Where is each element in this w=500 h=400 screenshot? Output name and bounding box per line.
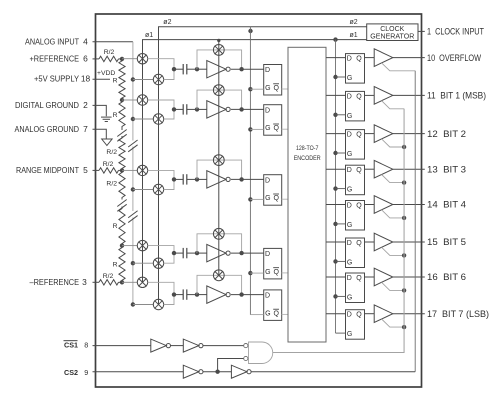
output row 1 pin wire — [393, 57, 425, 59]
three-state output buffer B7 — [374, 268, 393, 286]
ladder resistor R (below row2 tap) — [119, 100, 125, 129]
svg-text:+VDD: +VDD — [97, 70, 115, 77]
output latch U18 — [346, 310, 365, 340]
svg-text:G: G — [347, 259, 352, 266]
svg-text:Q: Q — [356, 132, 362, 139]
svg-text:D: D — [347, 312, 352, 319]
svg-text:ANALOG INPUT: ANALOG INPUT — [25, 37, 79, 47]
node: enable bus join row 6 — [402, 253, 406, 257]
svg-text:G: G — [347, 294, 352, 301]
ladder break mark upper — [121, 129, 123, 131]
node: row 1 latch G clock tap — [248, 87, 252, 91]
svg-text:RANGE MIDPOINT: RANGE MIDPOINT — [16, 165, 79, 175]
node: CS2 branch — [203, 371, 231, 373]
svg-text:9: 9 — [84, 368, 88, 377]
main device boundary box — [96, 14, 422, 387]
row 2 reference sampling switch S2A — [137, 95, 147, 105]
row 3 feedback switch S3F — [213, 155, 224, 166]
ladder break mark lower — [117, 200, 126, 207]
svg-text:Q: Q — [273, 310, 279, 317]
output latch U15 — [346, 201, 365, 231]
svg-text:G: G — [265, 85, 270, 92]
row 4 latch D wire — [231, 252, 264, 254]
row 4 reference tap wire — [122, 245, 137, 247]
resistor R/2 (pin 3) — [93, 281, 100, 283]
enable AND gate U30 (inverting inputs) — [249, 342, 273, 364]
svg-text:10 OVERFLOW: 10 OVERFLOW — [427, 53, 481, 63]
three-state output buffer B4 — [374, 160, 393, 178]
output row 8 pin wire — [393, 313, 425, 315]
node: row 4 inverter output — [239, 251, 243, 255]
svg-text:D: D — [265, 251, 270, 258]
svg-text:ø1: ø1 — [145, 32, 153, 39]
row 2 analog tap wire — [133, 118, 153, 120]
output latch U11 — [346, 54, 365, 84]
row 3 latch Qbar to encoder wire — [282, 198, 288, 200]
row 2 auto-balance feedback wire — [197, 90, 242, 109]
svg-text:5: 5 — [83, 165, 88, 175]
node: row 4 latch G clock tap — [248, 271, 252, 275]
svg-text:+REFERENCE: +REFERENCE — [30, 54, 80, 64]
gate output wire to bits enable bus — [273, 109, 404, 353]
svg-text:2: 2 — [83, 100, 88, 110]
pin 8 CS1 wire — [93, 345, 151, 347]
CS2 inverter A14 — [231, 365, 251, 378]
node: row 3 inverter input — [195, 177, 199, 181]
output latch U13 — [346, 130, 365, 160]
svg-text:15 BIT 5: 15 BIT 5 — [427, 237, 466, 247]
row 1 analog sampling switch S1B — [153, 74, 163, 84]
svg-text:R/2: R/2 — [103, 161, 114, 168]
phi2 clock wire — [159, 27, 367, 305]
svg-text:Q: Q — [273, 125, 279, 132]
node: output row 7 G clock tap — [333, 294, 337, 298]
CS2 branch to gate wire — [218, 359, 244, 372]
capacitor C3 — [174, 178, 183, 180]
capacitor C1 — [174, 68, 183, 70]
row 4 latch Qbar to encoder wire — [282, 272, 288, 274]
node: row 3 inverter output — [239, 177, 243, 181]
CS1 inverter A12 — [183, 339, 203, 352]
svg-text:D: D — [265, 107, 270, 114]
svg-text:GENERATOR: GENERATOR — [370, 34, 414, 41]
svg-text:G: G — [347, 331, 352, 338]
output row 8 latch Q wire — [365, 313, 375, 315]
output row 5 encoder-to-latch D wire — [326, 204, 346, 206]
three-state output buffer B8 — [374, 305, 393, 323]
row 3 comparator inverter A3 — [197, 178, 207, 180]
three-state output buffer B6 — [374, 233, 393, 251]
pin 18 +VDD wire — [93, 78, 111, 80]
output row 2 pin wire — [393, 94, 425, 96]
row 1 reference tap wire — [122, 58, 137, 60]
svg-text:13 BIT 3: 13 BIT 3 — [427, 164, 466, 174]
output latch U14 — [346, 165, 365, 195]
row 3 latch D wire — [231, 178, 264, 180]
phi1 clock wire — [143, 40, 367, 283]
node: analog bus tap row 5 — [131, 302, 135, 306]
svg-text:8: 8 — [84, 340, 88, 349]
output row 6 latch Q wire — [365, 241, 375, 243]
output row 4 latch Q wire — [365, 168, 375, 170]
capacitor C2 — [174, 108, 183, 110]
three-state output buffer B3 — [374, 125, 393, 143]
row 5 sample latch U5 — [264, 290, 282, 321]
svg-text:D: D — [347, 93, 352, 100]
node: row 1 inverter input — [195, 67, 199, 71]
node: enable bus join row 7 — [402, 288, 406, 292]
row 2 sample latch U2 — [264, 105, 282, 136]
row 5 auto-balance feedback wire — [197, 275, 242, 294]
bits enable bus wire — [403, 109, 405, 353]
row 1 comparator inverter A1 — [197, 68, 207, 70]
svg-text:4: 4 — [83, 37, 88, 47]
output row 8 encoder-to-latch D wire — [326, 313, 346, 315]
svg-text:Q: Q — [356, 93, 362, 100]
gate input bubble 1 — [244, 344, 248, 348]
svg-text:Q: Q — [356, 56, 362, 63]
svg-text:Q: Q — [356, 167, 362, 174]
row 3 reference tap wire — [122, 169, 137, 171]
output row 2 latch Q wire — [365, 94, 375, 96]
output row 3 latch Q wire — [365, 133, 375, 135]
output row 6 pin wire — [393, 241, 425, 243]
svg-text:–REFERENCE: –REFERENCE — [30, 277, 80, 287]
node: row 5 inverter output — [239, 292, 243, 296]
node: output row 3 G clock tap — [333, 151, 337, 155]
svg-text:CS1: CS1 — [64, 342, 78, 349]
node: row 4 cap input — [172, 251, 176, 255]
output row 2 G stub wire — [336, 114, 346, 116]
row 5 analog sampling switch S5B — [153, 299, 163, 309]
svg-text:R/2: R/2 — [106, 149, 117, 156]
node: enable bus join row 4 — [402, 180, 406, 184]
svg-text:128-TO-7: 128-TO-7 — [296, 145, 319, 152]
pin 9 CS2 wire — [93, 371, 184, 373]
svg-text:ø1: ø1 — [350, 32, 358, 39]
svg-text:+5V SUPPLY: +5V SUPPLY — [34, 74, 79, 84]
svg-text:D: D — [347, 275, 352, 282]
128-to-7 encoder U20 — [288, 47, 326, 342]
row 3 switch join wires — [148, 170, 174, 179]
row 3 analog tap wire — [133, 189, 153, 191]
svg-text:G: G — [265, 310, 270, 317]
second-rank latch G clock bus wire — [335, 40, 337, 334]
svg-text:G: G — [347, 222, 352, 229]
first-rank latch G clock bus wire — [249, 27, 251, 315]
row 4 reference sampling switch S4A — [137, 240, 147, 250]
node: row 2 inverter input — [195, 107, 199, 111]
node: row 5 cap input — [172, 292, 176, 296]
output row 6 enable wire — [382, 247, 405, 255]
node: analog bus tap row 4 — [131, 261, 135, 265]
row 2 feedback switch S2F — [213, 85, 224, 96]
svg-text:G: G — [347, 151, 352, 158]
ladder resistor R/2 (above midpoint) — [119, 136, 125, 170]
output row 8 G stub wire — [336, 332, 346, 334]
row 3 sample latch U3 — [264, 175, 282, 206]
ladder resistor R (above row4 tap) — [119, 207, 125, 246]
svg-text:CS2: CS2 — [64, 370, 78, 377]
svg-text:G: G — [347, 113, 352, 120]
row 4 feedback switch S4F — [213, 228, 224, 239]
row 5 switch join wires — [148, 282, 174, 294]
CS2 inverter A13 — [183, 365, 203, 378]
ladder resistor R/2 (below midpoint) — [119, 170, 125, 199]
CS1 stage wire — [171, 345, 184, 347]
svg-text:R/2: R/2 — [103, 273, 114, 280]
svg-text:G: G — [265, 125, 270, 132]
svg-text:D: D — [347, 132, 352, 139]
row 4 sample latch U4 — [264, 248, 282, 279]
node: output row 6 G clock tap — [333, 259, 337, 263]
svg-text:G: G — [347, 75, 352, 82]
node: output row 5 G clock tap — [333, 222, 337, 226]
node: enable bus join row 8 — [402, 325, 406, 329]
three-state output buffer B2 — [374, 87, 393, 105]
analog ground symbol (open triangle) — [102, 139, 112, 146]
node: range midpoint tap — [120, 168, 124, 172]
overflow enable bus wire — [414, 71, 416, 372]
svg-text:ENCODER: ENCODER — [294, 155, 321, 162]
output row 6 G stub wire — [336, 260, 346, 262]
svg-text:1 CLOCK INPUT: 1 CLOCK INPUT — [427, 26, 484, 36]
node: row 3 cap input — [172, 177, 176, 181]
output row 7 latch Q wire — [365, 276, 375, 278]
output row 8 enable wire — [382, 319, 405, 327]
row 1 sample latch U1 — [264, 65, 282, 96]
node: row 2 cap input — [172, 107, 176, 111]
row 4 latch G stub wire — [250, 272, 263, 274]
node: row 3 latch G clock tap — [248, 197, 252, 201]
svg-text:Q: Q — [273, 269, 279, 276]
row 3 analog sampling switch S3B — [153, 184, 163, 194]
row 3 auto-balance feedback wire — [197, 160, 242, 179]
row 5 latch D wire — [231, 294, 264, 296]
output latch U12 — [346, 91, 365, 121]
ladder resistor R (row4 tap to -ref) — [119, 246, 125, 283]
svg-text:G: G — [265, 269, 270, 276]
svg-text:G: G — [347, 187, 352, 194]
output row 1 enable wire — [382, 63, 416, 71]
output row 7 pin wire — [393, 276, 425, 278]
svg-text:R/2: R/2 — [106, 181, 117, 188]
output row 5 latch Q wire — [365, 204, 375, 206]
output row 5 enable wire — [382, 210, 405, 218]
row 1 auto-balance feedback wire — [197, 50, 242, 69]
output row 1 encoder-to-latch D wire — [326, 57, 346, 59]
row 4 comparator inverter A4 — [197, 252, 207, 254]
digital ground symbol — [101, 116, 112, 118]
node: row 2 latch G clock tap — [248, 127, 252, 131]
svg-text:ANALOG GROUND: ANALOG GROUND — [15, 124, 80, 134]
output row 5 pin wire — [393, 204, 425, 206]
row 1 analog tap wire — [133, 79, 153, 81]
output row 5 G stub wire — [336, 223, 346, 225]
row 5 feedback switch S5F — [213, 270, 224, 281]
row 2 reference tap wire — [122, 99, 137, 101]
svg-text:CLOCK: CLOCK — [380, 26, 404, 33]
node: phi1 to feedback bus — [217, 39, 220, 42]
gate input bubble 2 — [244, 356, 248, 360]
svg-text:Q: Q — [356, 312, 362, 319]
output row 7 encoder-to-latch D wire — [326, 276, 346, 278]
capacitor C5 — [174, 294, 183, 296]
svg-text:17 BIT 7 (LSB): 17 BIT 7 (LSB) — [427, 309, 489, 319]
output row 3 G stub wire — [336, 152, 346, 154]
node: analog bus tap row 3 — [131, 187, 135, 191]
capacitor C4 — [174, 252, 183, 254]
svg-text:16 BIT 6: 16 BIT 6 — [427, 272, 466, 282]
output row 2 enable wire — [382, 101, 405, 109]
svg-text:12 BIT 2: 12 BIT 2 — [427, 129, 466, 139]
output row 4 G stub wire — [336, 188, 346, 190]
analog bus break mark lower — [128, 211, 137, 218]
row 5 analog tap wire — [133, 304, 153, 306]
analog bus break mark upper — [128, 140, 137, 147]
svg-text:D: D — [265, 177, 270, 184]
row 2 comparator inverter A2 — [197, 108, 207, 110]
svg-text:R/2: R/2 — [104, 49, 115, 56]
svg-text:DIGITAL GROUND: DIGITAL GROUND — [15, 100, 79, 110]
CS2 buffer output wire to overflow enable bus — [251, 371, 415, 373]
output row 1 latch Q wire — [365, 57, 375, 59]
row 1 feedback switch S1F — [213, 45, 224, 56]
row 5 latch Qbar to encoder wire — [282, 313, 288, 315]
output row 3 encoder-to-latch D wire — [326, 133, 346, 135]
node: phi2 to latch clock bus — [248, 29, 252, 33]
output row 6 encoder-to-latch D wire — [326, 241, 346, 243]
output latch U16 — [346, 238, 365, 268]
node: -reference tap / row5 tap — [120, 280, 124, 284]
output row 4 encoder-to-latch D wire — [326, 168, 346, 170]
node: analog bus tap row 2 — [131, 117, 135, 121]
output row 7 enable wire — [382, 282, 405, 290]
svg-text:Q: Q — [356, 240, 362, 247]
svg-text:11 BIT 1 (MSB): 11 BIT 1 (MSB) — [427, 91, 486, 101]
svg-text:R: R — [113, 223, 118, 230]
resistor R/2 (top, pin 6) — [93, 58, 100, 60]
node: row 1 cap input — [172, 67, 176, 71]
output row 3 pin wire — [393, 133, 425, 135]
svg-text:D: D — [265, 293, 270, 300]
node: row 5 inverter input — [195, 292, 199, 296]
node: row 4 inverter input — [195, 251, 199, 255]
svg-text:ø2: ø2 — [350, 19, 358, 26]
svg-text:Q: Q — [273, 195, 279, 202]
node: enable bus join row 5 — [402, 216, 406, 220]
node: ladder row4 tap — [120, 243, 124, 247]
node: enable bus join row 3 — [402, 145, 406, 149]
pin 4 ANALOG INPUT wire — [93, 41, 133, 43]
node: row 1 inverter output — [239, 67, 243, 71]
svg-text:Q: Q — [356, 203, 362, 210]
three-state output buffer B1 — [374, 49, 393, 67]
svg-text:G: G — [265, 195, 270, 202]
CS1 to gate wire — [203, 345, 244, 347]
output row 7 G stub wire — [336, 295, 346, 297]
row 3 reference sampling switch S3A — [137, 165, 147, 175]
svg-text:14 BIT 4: 14 BIT 4 — [427, 200, 466, 210]
row 5 reference tap wire — [122, 281, 137, 283]
row 1 latch G stub wire — [250, 88, 263, 90]
resistor R/2 (pin 5) — [93, 169, 100, 171]
svg-text:ø2: ø2 — [163, 19, 171, 26]
node: +reference ladder top — [120, 57, 124, 61]
svg-text:D: D — [347, 167, 352, 174]
row 4 switch join wires — [148, 246, 174, 254]
svg-text:R: R — [113, 112, 118, 119]
pin 7 wire — [93, 129, 107, 139]
row 2 latch Qbar to encoder wire — [282, 128, 288, 130]
svg-text:18: 18 — [81, 74, 91, 84]
output row 4 enable wire — [382, 175, 405, 183]
row 4 analog sampling switch S4B — [153, 258, 163, 268]
output latch U17 — [346, 273, 365, 303]
svg-text:D: D — [347, 240, 352, 247]
svg-text:6: 6 — [83, 54, 88, 64]
pin 1 CLOCK INPUT wire — [418, 30, 425, 32]
CS1 inverter A11 — [151, 339, 171, 352]
row 5 reference sampling switch S5A — [137, 277, 147, 287]
row 4 auto-balance feedback wire — [197, 234, 242, 253]
row 4 analog tap wire — [133, 262, 153, 264]
row 5 comparator inverter A5 — [197, 294, 207, 296]
row 2 analog sampling switch S2B — [153, 114, 163, 124]
row 1 reference sampling switch S1A — [137, 54, 147, 64]
svg-text:Q: Q — [356, 275, 362, 282]
output row 4 pin wire — [393, 168, 425, 170]
row 1 switch join wires — [148, 59, 174, 69]
node: ladder row2 tap — [120, 98, 124, 102]
svg-text:R: R — [113, 262, 118, 269]
svg-text:7: 7 — [83, 124, 88, 134]
node: analog bus tap row 1 — [131, 77, 135, 81]
row 2 latch G stub wire — [250, 128, 263, 130]
node: output row 2 G clock tap — [333, 113, 337, 117]
svg-text:R: R — [113, 77, 118, 84]
node: output row 4 G clock tap — [333, 186, 337, 190]
analog input bus wire (with breaks) — [132, 42, 134, 141]
output row 3 enable wire — [382, 139, 405, 147]
ladder resistor R (between +ref and row2 tap) — [119, 59, 125, 100]
row 1 latch D wire — [231, 68, 264, 70]
pin 2 wire — [93, 105, 107, 116]
row 3 latch G stub wire — [250, 198, 263, 200]
node: row 2 inverter output — [239, 107, 243, 111]
svg-text:D: D — [347, 203, 352, 210]
svg-text:D: D — [347, 56, 352, 63]
row 2 switch join wires — [148, 100, 174, 109]
row 5 latch G stub wire — [250, 314, 263, 316]
output row 1 G stub wire — [336, 76, 346, 78]
clock generator U10 — [367, 24, 418, 41]
node: output row 1 G clock tap — [333, 75, 337, 79]
three-state output buffer B5 — [374, 196, 393, 214]
row 1 latch Qbar to encoder wire — [282, 88, 288, 90]
svg-text:3: 3 — [82, 277, 87, 287]
output row 2 encoder-to-latch D wire — [326, 94, 346, 96]
svg-text:Q: Q — [273, 85, 279, 92]
svg-text:D: D — [265, 67, 270, 74]
row 2 latch D wire — [231, 108, 264, 110]
node: phi1 to output latch G bus — [333, 37, 337, 41]
